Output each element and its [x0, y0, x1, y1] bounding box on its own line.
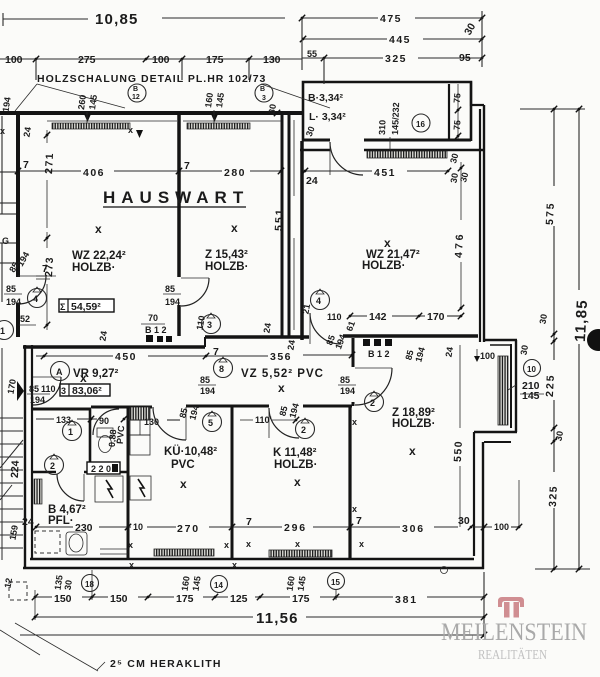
svg-text:194: 194 [1, 96, 13, 112]
wall left lower (entrance side) double [24, 345, 26, 568]
wall K/Z18 [348, 406, 351, 559]
svg-text:296: 296 [284, 522, 307, 534]
bath sink [66, 532, 87, 555]
svg-text:70: 70 [148, 313, 158, 323]
diagonal lines bottom left [15, 623, 98, 671]
svg-text:30: 30 [462, 21, 478, 37]
vertical line right x484 down [483, 572, 485, 637]
svg-text:3: 3 [262, 95, 266, 102]
svg-text:8: 8 [219, 364, 224, 374]
dim row 150 150 175 125 175 381 [35, 596, 52, 598]
svg-text:MEILENSTEIN: MEILENSTEIN [441, 619, 587, 646]
svg-text:90: 90 [99, 416, 109, 426]
svg-text:145: 145 [87, 94, 99, 110]
dim verticals top [301, 18, 303, 70]
wall bottom exterior double [30, 558, 474, 561]
wall bath horizontal [33, 471, 56, 474]
svg-text:85: 85 [6, 284, 16, 294]
door entrance arc [33, 377, 61, 405]
svg-text:85: 85 [200, 375, 210, 385]
box sum 83,06 [60, 384, 110, 396]
svg-text:18: 18 [85, 580, 94, 589]
svg-text:125: 125 [230, 593, 248, 605]
svg-text:1: 1 [68, 427, 73, 437]
svg-text:550: 550 [452, 440, 465, 463]
leader lines [15, 84, 37, 111]
wall WZ21 top / loggia bottom band [303, 139, 330, 142]
corridor top wall right segment [205, 335, 309, 338]
svg-text:170: 170 [427, 311, 445, 323]
svg-text:B: B [133, 86, 138, 93]
svg-text:280: 280 [224, 167, 246, 179]
watermark icon pi [498, 597, 524, 618]
circled 2 bath [45, 456, 64, 475]
svg-text:175: 175 [292, 593, 310, 605]
window top WZ22 hatch [52, 123, 130, 129]
svg-text:110: 110 [327, 312, 342, 322]
small o bottom wall [441, 567, 448, 574]
dim 10,85 line [3, 18, 88, 20]
svg-text:271: 271 [43, 152, 56, 175]
svg-text:194: 194 [165, 297, 180, 307]
svg-text:7: 7 [184, 160, 190, 172]
svg-text:24: 24 [262, 322, 274, 334]
svg-text:85: 85 [29, 384, 39, 394]
wall right exterior upper [479, 109, 481, 342]
wall right exterior lower double [473, 432, 475, 556]
wall top exterior [0, 111, 303, 115]
svg-text:381: 381 [395, 594, 418, 606]
circled 3 [202, 315, 221, 334]
window bottom K hatch [269, 550, 332, 557]
svg-text:145: 145 [522, 390, 540, 402]
dim 451 [305, 170, 372, 172]
svg-text:30: 30 [304, 125, 317, 138]
svg-text:130: 130 [263, 54, 281, 66]
svg-text:130: 130 [144, 417, 159, 427]
svg-text:G: G [2, 236, 9, 246]
svg-text:16: 16 [416, 120, 425, 129]
svg-text:2 2 0: 2 2 0 [91, 464, 111, 474]
STAIRS [0, 348, 23, 560]
svg-text:30: 30 [63, 579, 74, 590]
svg-text:PFL·: PFL· [48, 515, 74, 527]
svg-text:HOLZSCHALUNG DETAIL PL.HR 102: HOLZSCHALUNG DETAIL PL.HR 102/73 [37, 73, 266, 85]
circled 18 [82, 575, 99, 592]
svg-text:145: 145 [296, 575, 308, 591]
svg-text:95: 95 [459, 52, 471, 64]
svg-text:x: x [359, 539, 364, 549]
svg-text:100: 100 [480, 351, 495, 361]
svg-text:HOLZB·: HOLZB· [72, 262, 115, 274]
door KU arc [153, 407, 186, 440]
shaft cell 1 [95, 476, 123, 502]
svg-text:x: x [129, 560, 134, 570]
svg-text:3: 3 [61, 386, 66, 396]
svg-text:KÜ·10,48²: KÜ·10,48² [164, 445, 217, 458]
svg-text:75: 75 [452, 120, 463, 131]
svg-text:K 11,48²: K 11,48² [273, 447, 317, 459]
svg-text:5: 5 [208, 418, 213, 428]
bathtub dashed [35, 531, 60, 553]
svg-text:175: 175 [206, 54, 224, 66]
svg-text:356: 356 [270, 351, 292, 363]
svg-text:11,56: 11,56 [256, 610, 299, 627]
svg-text:270: 270 [177, 523, 200, 535]
svg-text:10: 10 [527, 365, 536, 374]
svg-text:170: 170 [6, 378, 18, 395]
wall Z15/WZ21 double [281, 115, 284, 337]
door WZ21 arc [310, 313, 341, 344]
svg-text:HAUSWART: HAUSWART [103, 188, 249, 207]
svg-text:WZ 22,24²: WZ 22,24² [72, 250, 126, 262]
wall WZ21 left [300, 141, 304, 340]
circled 2 Z18 [365, 393, 384, 412]
svg-text:Σ: Σ [60, 302, 66, 312]
electric squares corridor [363, 339, 370, 346]
svg-text:B 1 2: B 1 2 [368, 349, 390, 359]
svg-text:x: x [409, 444, 416, 458]
long line bottom [20, 634, 486, 636]
door Z15 arc [181, 278, 209, 306]
dim 11,56 line [35, 616, 253, 618]
svg-text:x: x [0, 126, 5, 136]
svg-text:575: 575 [544, 201, 557, 225]
svg-text:306: 306 [402, 523, 425, 535]
circled 5 [203, 413, 222, 432]
svg-text:325: 325 [547, 485, 560, 508]
bath dim row 133 90 130 [36, 418, 54, 420]
svg-text:x: x [295, 539, 300, 549]
dim connector top right [520, 108, 585, 110]
svg-text:7: 7 [356, 515, 362, 527]
svg-text:HOLZB·: HOLZB· [362, 260, 405, 272]
svg-text:194: 194 [413, 346, 427, 363]
dim 142 170 line [350, 315, 367, 317]
electric squares WZ22 [146, 335, 153, 342]
loggia inner right wall [448, 84, 450, 139]
svg-text:145: 145 [214, 92, 226, 108]
svg-text:HOLZB·: HOLZB· [392, 418, 435, 430]
dim row 230 10 270 7 296 7 306 30 100 [36, 526, 73, 528]
svg-text:HOLZB·: HOLZB· [274, 459, 317, 471]
svg-text:450: 450 [115, 351, 137, 363]
svg-text:142: 142 [369, 311, 387, 323]
svg-text:14: 14 [214, 581, 223, 590]
svg-text:225: 225 [544, 373, 557, 397]
bay right wall [510, 344, 512, 428]
svg-text:30: 30 [538, 313, 550, 325]
svg-text:HOLZB·: HOLZB· [205, 261, 248, 273]
svg-text:L· 3,34²: L· 3,34² [309, 111, 346, 123]
svg-text:85: 85 [340, 375, 350, 385]
svg-text:310: 310 [377, 120, 388, 135]
circled B12 [128, 84, 146, 102]
svg-text:194: 194 [200, 386, 215, 396]
left small window lines bottom [100, 548, 128, 550]
circled 8 [214, 359, 233, 378]
dim line x579 [578, 108, 580, 290]
svg-text:406: 406 [83, 167, 105, 179]
window loggia hatch [367, 151, 447, 158]
bay bottom wall [474, 431, 517, 433]
svg-text:145/232: 145/232 [390, 102, 401, 135]
circled 2 K [296, 420, 315, 439]
svg-text:145: 145 [191, 575, 203, 591]
svg-text:x: x [278, 381, 285, 395]
neighbour wall stubs left [0, 171, 16, 173]
svg-text:24: 24 [286, 339, 298, 351]
svg-text:2: 2 [370, 398, 375, 408]
svg-text:x: x [294, 475, 301, 489]
svg-text:30: 30 [458, 171, 470, 183]
svg-text:x: x [352, 504, 357, 514]
svg-text:4: 4 [316, 296, 321, 306]
dashed box outside bottom left [9, 582, 27, 600]
svg-text:24: 24 [98, 330, 110, 342]
dim 445 line [303, 38, 387, 40]
wall WZ22/Z15 [177, 115, 181, 277]
window mark arrow right [136, 130, 143, 138]
svg-text:159: 159 [8, 524, 20, 541]
dim row 100-275-100-175-130 [0, 58, 302, 60]
svg-text:x: x [180, 477, 187, 491]
svg-text:x: x [246, 539, 251, 549]
corridor dim 450 356 [36, 355, 113, 357]
svg-text:194: 194 [30, 395, 45, 405]
window top Z15 hatch [187, 123, 250, 129]
svg-text:133: 133 [56, 415, 71, 425]
svg-text:85: 85 [165, 284, 175, 294]
loggia outer right step [471, 82, 484, 105]
circled 16 [412, 114, 430, 132]
window bottom kitchen hatch [154, 549, 214, 556]
svg-text:3: 3 [207, 320, 212, 330]
svg-text:194: 194 [6, 297, 21, 307]
svg-text:7: 7 [23, 159, 29, 171]
svg-text:100: 100 [5, 54, 23, 66]
corridor end wall to Z18 [352, 338, 355, 367]
kitchen counter hatch [130, 407, 150, 420]
svg-text:230: 230 [75, 522, 93, 534]
svg-text:x: x [384, 236, 391, 250]
svg-text:24: 24 [22, 126, 34, 138]
corridor bottom wall / room top walls [33, 408, 91, 411]
svg-text:24: 24 [22, 516, 34, 528]
svg-text:54,59²: 54,59² [71, 301, 101, 313]
svg-text:83,06²: 83,06² [72, 385, 102, 397]
circled 1 [63, 422, 82, 441]
heraklith hatch strip left bath [34, 479, 42, 504]
svg-text:55: 55 [307, 49, 317, 59]
svg-text:476: 476 [453, 231, 466, 258]
svg-text:194: 194 [333, 333, 348, 351]
svg-text:30: 30 [458, 515, 470, 527]
window sill top lines [47, 120, 177, 122]
bay window hatch [498, 356, 508, 425]
svg-text:B: B [260, 86, 265, 93]
svg-text:x: x [128, 540, 133, 550]
svg-text:0,88: 0,88 [107, 429, 118, 447]
circled A [51, 362, 70, 381]
circled 14 [211, 576, 228, 593]
svg-text:B·3,34²: B·3,34² [308, 92, 344, 104]
svg-text:x: x [224, 540, 229, 550]
circled 4 left [28, 289, 47, 308]
svg-text:325: 325 [385, 53, 407, 65]
svg-text:100: 100 [494, 522, 509, 532]
svg-text:150: 150 [110, 593, 128, 605]
wall KU/K [231, 406, 234, 559]
svg-text:21: 21 [301, 303, 313, 315]
kitchen sink [130, 420, 150, 435]
wall bath/KU [127, 406, 130, 559]
svg-text:475: 475 [380, 13, 402, 25]
svg-text:110': 110' [255, 415, 272, 425]
svg-text:30: 30 [519, 344, 531, 356]
svg-text:10: 10 [133, 522, 143, 532]
svg-text:224: 224 [9, 460, 22, 478]
svg-text:Z 15,43²: Z 15,43² [205, 249, 248, 261]
loggia box [303, 82, 471, 141]
toilet [97, 428, 113, 437]
svg-text:VZ 5,52² PVC: VZ 5,52² PVC [241, 368, 324, 380]
circled 15 [328, 573, 345, 590]
corridor top wall left segment [23, 345, 205, 348]
svg-text:175: 175 [176, 593, 194, 605]
box 220D [87, 462, 120, 474]
wall bath entry / WC [89, 409, 92, 474]
svg-text:B 1 2: B 1 2 [145, 325, 167, 335]
svg-text:1: 1 [0, 326, 5, 336]
svg-text:52: 52 [20, 314, 30, 324]
svg-text:150: 150 [54, 593, 72, 605]
svg-text:7: 7 [246, 516, 252, 528]
svg-text:4: 4 [33, 294, 38, 304]
dim connector bottom right [535, 568, 590, 570]
box sum 54,59 [59, 299, 114, 312]
dim 406 280 line [18, 170, 81, 172]
svg-text:100: 100 [152, 54, 170, 66]
kitchen cabinet [130, 435, 150, 455]
svg-text:12: 12 [132, 94, 140, 101]
svg-text:10,85: 10,85 [95, 11, 139, 28]
svg-text:PVC: PVC [171, 459, 195, 471]
svg-text:451: 451 [374, 167, 396, 179]
door entrance triangle [17, 381, 24, 401]
circled 1 left edge [0, 321, 14, 340]
svg-text:REALITÄTEN: REALITÄTEN [478, 646, 547, 663]
door loggia arc [330, 142, 363, 175]
svg-text:7: 7 [213, 346, 219, 358]
dim 55-325-95 line [302, 57, 383, 59]
dim 475 line [302, 17, 378, 19]
svg-text:2: 2 [301, 425, 306, 435]
svg-text:551: 551 [273, 207, 286, 231]
svg-text:x: x [95, 222, 102, 236]
svg-text:75: 75 [452, 93, 463, 104]
svg-text:61: 61 [344, 320, 357, 333]
svg-text:x: x [352, 417, 357, 427]
shaft cell 2 [130, 476, 151, 500]
svg-text:275: 275 [78, 54, 96, 66]
svg-text:x: x [232, 560, 237, 570]
svg-text:24: 24 [306, 175, 318, 187]
door WZ22 left arc [18, 276, 46, 304]
svg-text:A: A [56, 367, 63, 377]
door WC arc [93, 409, 119, 435]
dim line x554 [553, 108, 555, 186]
svg-text:24: 24 [444, 346, 456, 358]
svg-text:15: 15 [331, 578, 340, 587]
door Z18 arc [355, 368, 392, 405]
svg-text:445: 445 [389, 34, 411, 46]
circled 10 bay [524, 360, 541, 377]
door bath arc [57, 474, 84, 501]
door K arc [269, 408, 299, 438]
bay top wall [484, 339, 517, 341]
svg-text:7: 7 [42, 263, 48, 275]
neighbour wall left edge vertical [1, 116, 3, 214]
circled B3 [255, 84, 273, 102]
svg-text:110: 110 [41, 384, 56, 394]
wall left exterior [16, 111, 20, 277]
punch hole [587, 329, 600, 351]
svg-text:12: 12 [3, 577, 15, 589]
circled 4 mid [311, 291, 330, 310]
svg-text:30: 30 [448, 152, 460, 164]
svg-text:x: x [80, 371, 87, 385]
dim 75 75 loggia right [457, 84, 459, 139]
svg-text:30: 30 [449, 172, 461, 184]
svg-text:2⁵ CM HERAKLITH: 2⁵ CM HERAKLITH [110, 658, 222, 670]
svg-text:2: 2 [50, 461, 55, 471]
svg-text:x: x [231, 221, 238, 235]
svg-text:194: 194 [340, 386, 355, 396]
